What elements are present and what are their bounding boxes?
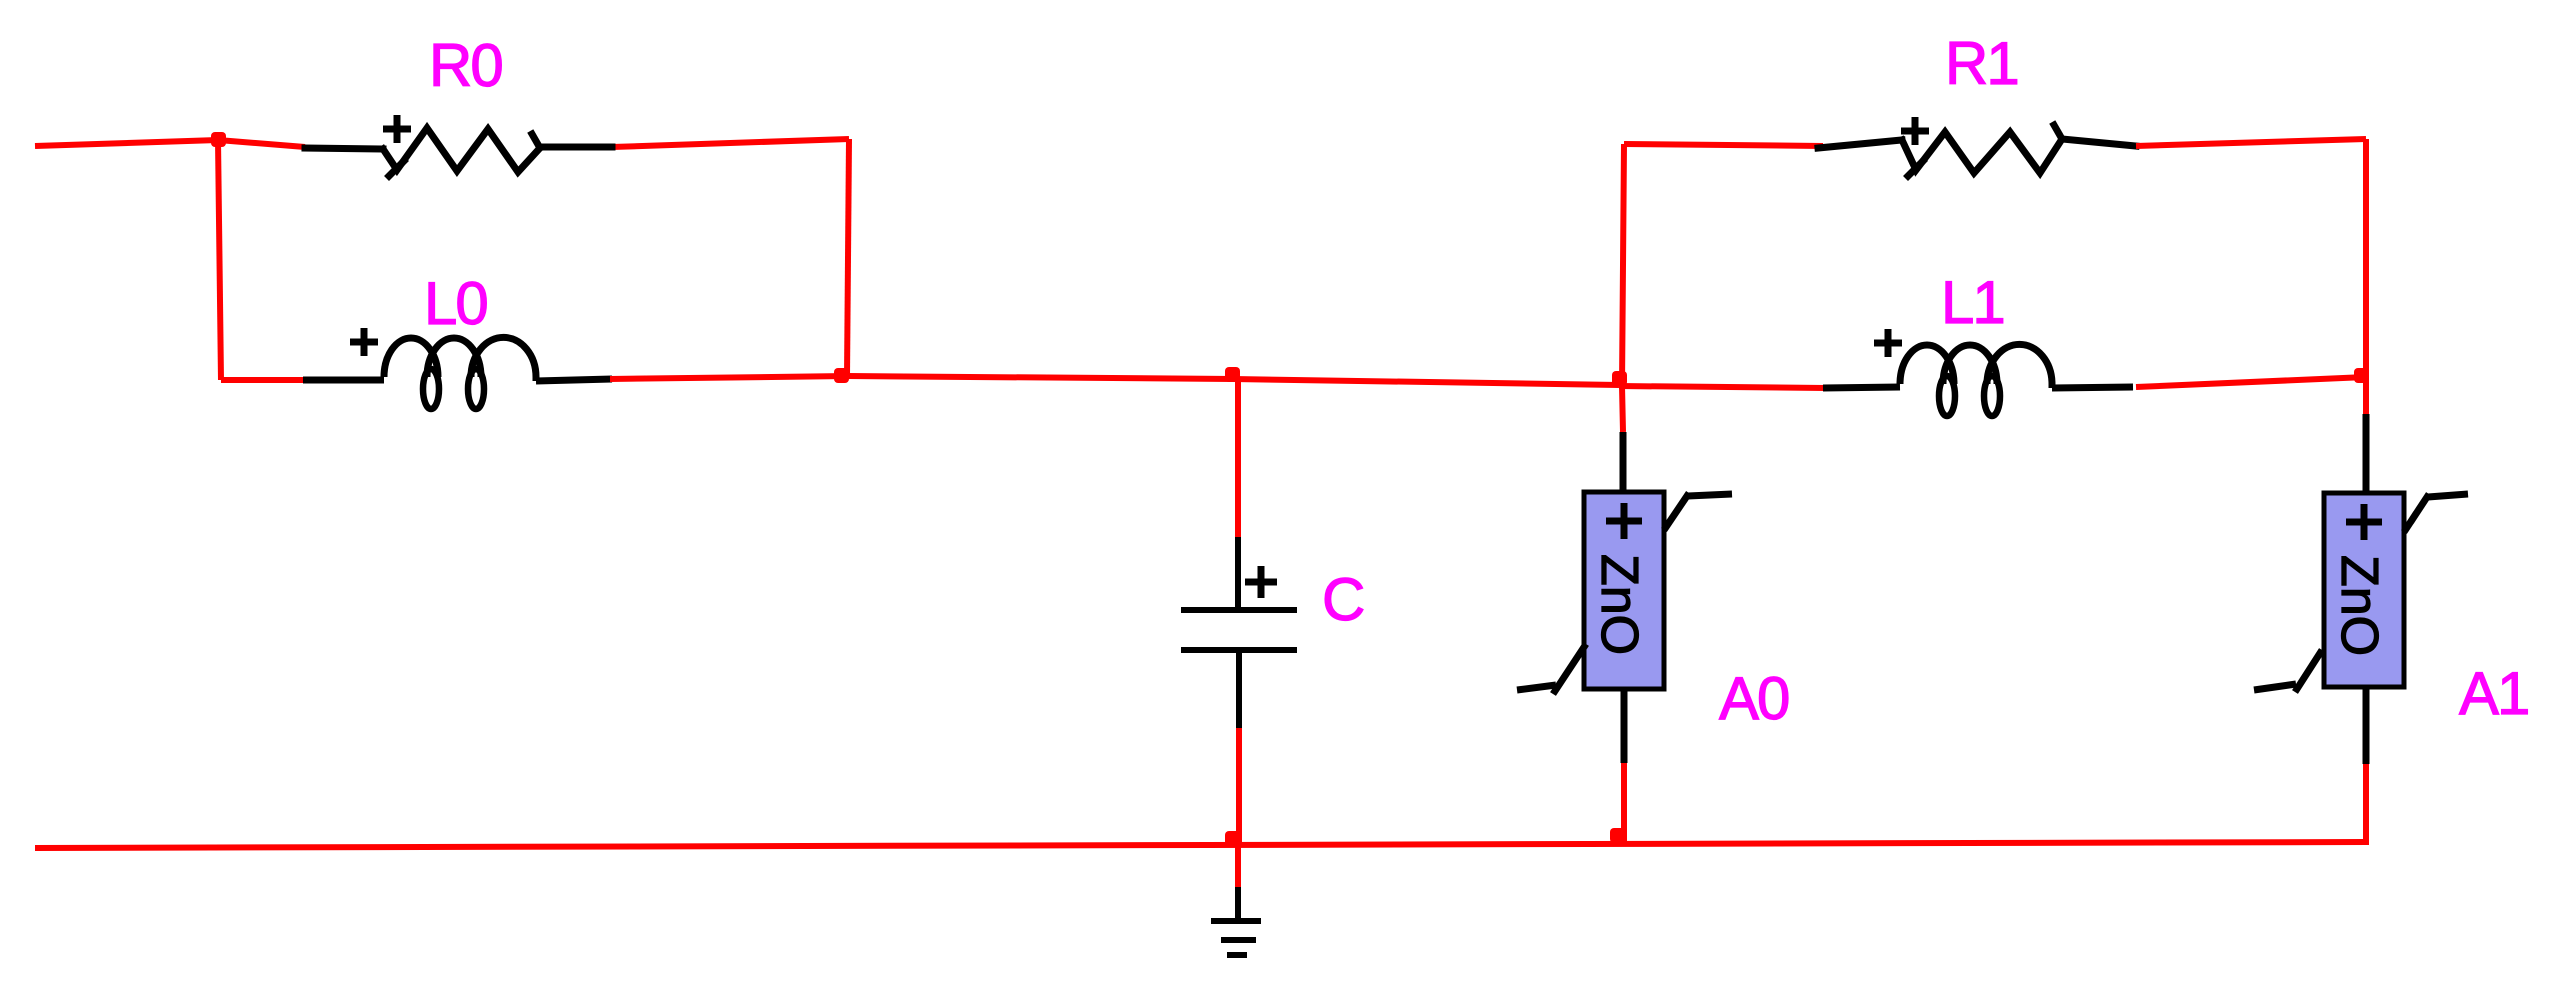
svg-text:L0: L0 <box>424 270 487 337</box>
inductor L1 <box>1823 344 2133 416</box>
varistor hook top-right of A1 <box>2404 494 2468 532</box>
resistor R1 <box>1818 125 2136 176</box>
wire: A0 bottom lead black <box>1621 689 1628 763</box>
polarity + of A1 <box>2346 504 2382 540</box>
svg-text:ZnO: ZnO <box>1590 554 1648 655</box>
wire: A1 bottom lead red to rail corner <box>2363 764 2369 845</box>
wire: right vertical of R0/L0 loop <box>847 139 849 377</box>
arrester A1 <box>2363 414 2370 496</box>
wire: R1 right red to top-right corner <box>2136 139 2366 146</box>
svg-text:A1: A1 <box>2459 660 2528 727</box>
wire: junction to R0 left lead <box>218 140 305 147</box>
node dot: L0 right junction <box>834 368 849 383</box>
wire: R1 left red from corner <box>1624 144 1823 146</box>
node dot: input junction <box>211 132 226 147</box>
wire: top-left input <box>35 140 218 146</box>
svg-text:R0: R0 <box>429 32 502 99</box>
wire: L1 right red <box>2136 377 2366 387</box>
node dot: A0 bottom junction <box>1610 828 1625 843</box>
ground <box>1211 887 1261 955</box>
wire: L0 left red <box>221 377 305 383</box>
polarity + of R0 <box>383 115 411 143</box>
capacitor C <box>1235 379 1241 537</box>
polarity + of A0 <box>1606 503 1642 539</box>
wire: R0 right to top-right corner <box>612 139 849 147</box>
svg-text:ZnO: ZnO <box>2330 555 2388 656</box>
polarity + of C <box>1245 566 1277 598</box>
node dot: ground node <box>1225 831 1240 846</box>
varistor hook top-right of A0 <box>1664 493 1732 530</box>
polarity + of L1 <box>1874 329 1902 357</box>
polarity + of R1 <box>1901 117 1929 145</box>
resistor R0 <box>305 128 612 176</box>
wire: L1 left red <box>1619 386 1825 388</box>
polarity + of L0 <box>350 328 378 356</box>
svg-text:C: C <box>1322 566 1364 633</box>
wire: left vertical R1 loop / down to A0 <box>1622 144 1624 432</box>
wire: bottom rail <box>35 842 2366 848</box>
inductor L0 <box>303 337 612 409</box>
svg-text:R1: R1 <box>1945 30 2018 97</box>
node dot: A1 node <box>2354 368 2369 383</box>
svg-text:A0: A0 <box>1719 665 1789 732</box>
node dot: capacitor node <box>1225 367 1240 382</box>
wire: A1 bottom lead black <box>2363 687 2370 764</box>
wire: A0 bottom lead red <box>1621 763 1627 845</box>
wire: ground stub red <box>1235 844 1241 887</box>
wire: right vertical R1/L1 loop down to A1 <box>2363 139 2369 414</box>
wire: left vertical of R0/L0 loop <box>218 140 221 380</box>
svg-text:L1: L1 <box>1941 269 2004 336</box>
varistor hook bottom-left of A0 <box>1517 644 1586 694</box>
node dot: A0 node <box>1612 371 1627 386</box>
arrester A0 <box>1620 432 1627 495</box>
wire: main rail node C to node A0 <box>1233 379 1619 385</box>
varistor hook bottom-left of A1 <box>2254 650 2322 692</box>
wire: main rail L0 to node C <box>610 376 1233 379</box>
